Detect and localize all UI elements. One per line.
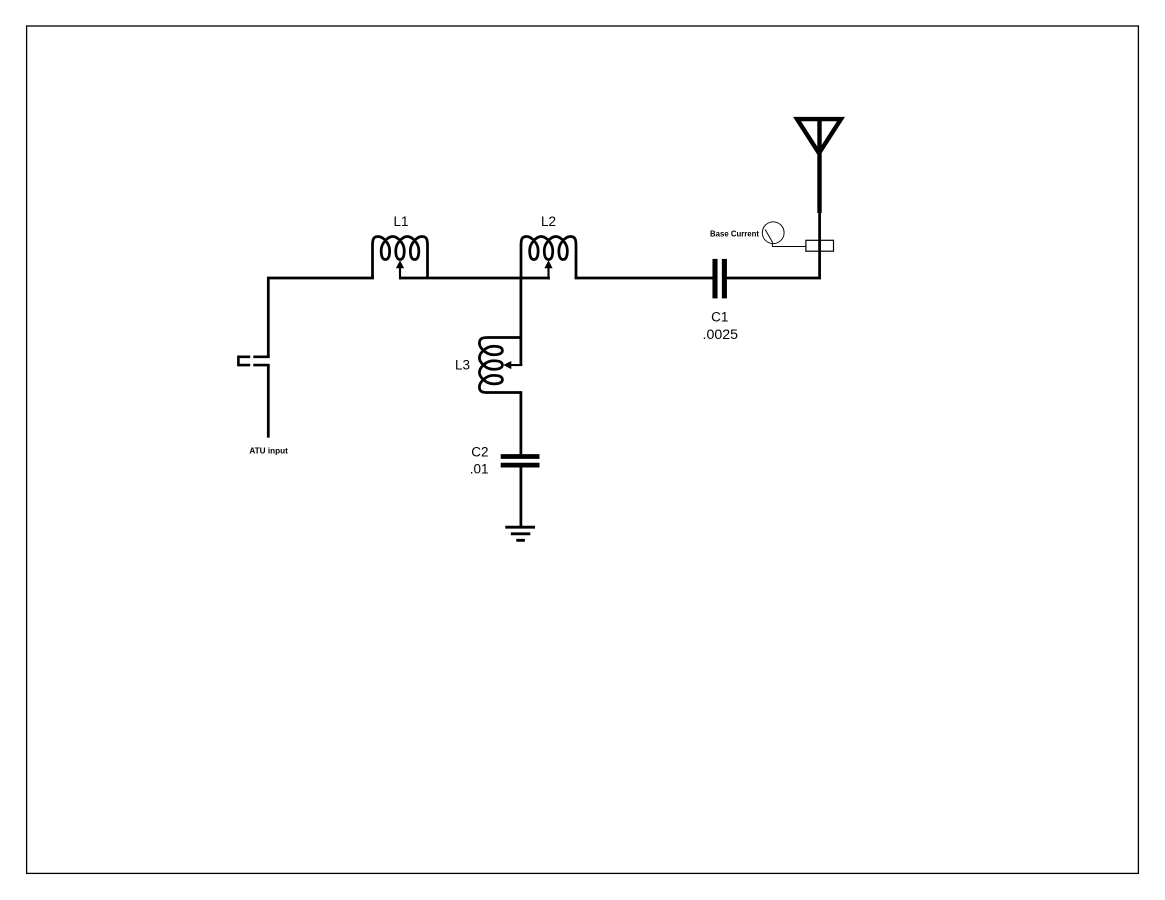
inductor L2	[521, 237, 576, 279]
meter needle and lead to pickup	[765, 230, 806, 247]
ground	[505, 527, 535, 540]
tap arrow of L3	[503, 361, 522, 369]
connector J1 plug bracket	[238, 357, 250, 365]
wire input riser and top run to L1	[268, 278, 374, 357]
wire C1 to antenna riser	[727, 212, 820, 278]
svg-text:L2: L2	[541, 214, 556, 229]
antenna ANT1	[793, 117, 845, 213]
wire C2 to ground	[520, 467, 523, 526]
current pickup box	[806, 240, 834, 251]
wire L1 tap to L2 tap	[400, 277, 550, 280]
capacitor C2	[501, 457, 540, 466]
inductor L1	[373, 237, 428, 279]
wire L2 right leg to C1	[575, 277, 713, 280]
svg-text:L1: L1	[393, 214, 408, 229]
capacitor C1	[715, 259, 724, 299]
svg-text:L3: L3	[455, 358, 470, 373]
svg-text:C2: C2	[471, 445, 488, 460]
svg-text:.01: .01	[470, 462, 489, 477]
svg-text:ATU input: ATU input	[249, 446, 288, 455]
wire junction to L3	[520, 278, 523, 365]
svg-text:.0025: .0025	[703, 327, 739, 343]
wire L3 bottom leg to C2	[520, 391, 523, 454]
svg-text:Base Current: Base Current	[710, 230, 759, 239]
meter (Base Current)	[762, 222, 784, 244]
tap arrow of L2	[544, 260, 552, 279]
connector J1 jack fork	[253, 357, 269, 365]
tap arrow of L1	[396, 260, 404, 279]
inductor L3	[479, 338, 521, 393]
wire ATU input stub	[267, 365, 270, 438]
svg-text:C1: C1	[711, 310, 728, 325]
